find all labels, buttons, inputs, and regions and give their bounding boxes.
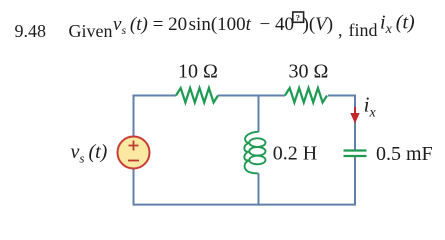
resistor R2 30ohm zigzag [285, 88, 327, 103]
svg-text:, find: , find [338, 20, 378, 40]
wire top-left segment [134, 96, 177, 138]
svg-text:9.48: 9.48 [15, 21, 47, 41]
wire top-middle segment [218, 95, 285, 97]
svg-text:Given: Given [69, 21, 113, 41]
wire top-right segment [328, 96, 355, 152]
missing-glyph box (degree) [293, 12, 304, 22]
svg-text:ix (t): ix (t) [380, 12, 415, 38]
wire middle branch lower [258, 174, 260, 206]
resistor R1 10ohm zigzag [176, 88, 218, 103]
svg-text:0.5 mF: 0.5 mF [376, 143, 433, 165]
wire left lower + bottom [134, 156, 356, 205]
capacitor C1 plates [344, 151, 367, 157]
VS plus sign [129, 141, 139, 151]
wire middle branch upper [258, 96, 260, 133]
equation v_s(t) = 20 sin(100t - 40deg)(V) [113, 12, 333, 37]
current arrow ix [350, 107, 359, 124]
svg-text:vs (t): vs (t) [71, 141, 108, 166]
VS minus sign [128, 160, 139, 162]
voltage source VS circle [118, 137, 150, 169]
svg-text:0.2 H: 0.2 H [273, 143, 317, 165]
svg-text:vs (t) = 20 sin(100t − 40: vs (t) = 20 sin(100t − 40 [113, 14, 294, 37]
svg-text:10 Ω: 10 Ω [178, 61, 218, 83]
svg-text:?: ? [296, 13, 300, 23]
inductor L1 0.2H coil [244, 132, 265, 174]
svg-text:)(V): )(V) [303, 14, 334, 35]
svg-text:ix: ix [364, 93, 377, 121]
svg-text:30 Ω: 30 Ω [289, 61, 329, 83]
